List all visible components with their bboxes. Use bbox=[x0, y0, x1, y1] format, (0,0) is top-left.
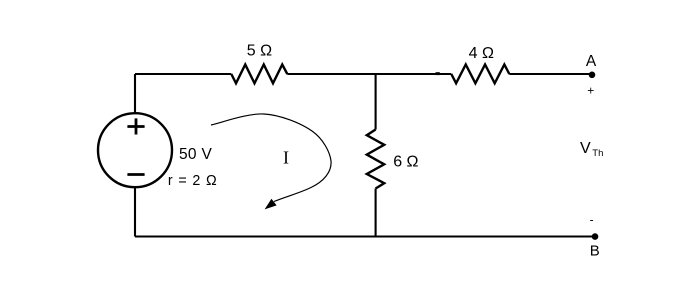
svg-text:I: I bbox=[283, 148, 289, 168]
svg-text:4 Ω: 4 Ω bbox=[469, 45, 494, 62]
svg-text:V: V bbox=[580, 140, 591, 157]
svg-text:B: B bbox=[590, 243, 600, 260]
svg-text:Th: Th bbox=[592, 148, 603, 159]
svg-text:r = 2 Ω: r = 2 Ω bbox=[168, 173, 218, 189]
svg-text:+: + bbox=[587, 83, 594, 97]
svg-text:50 V: 50 V bbox=[179, 146, 212, 163]
svg-text:A: A bbox=[586, 53, 597, 70]
svg-text:-: - bbox=[590, 213, 594, 227]
svg-text:5 Ω: 5 Ω bbox=[247, 43, 272, 60]
svg-text:6 Ω: 6 Ω bbox=[393, 154, 418, 171]
